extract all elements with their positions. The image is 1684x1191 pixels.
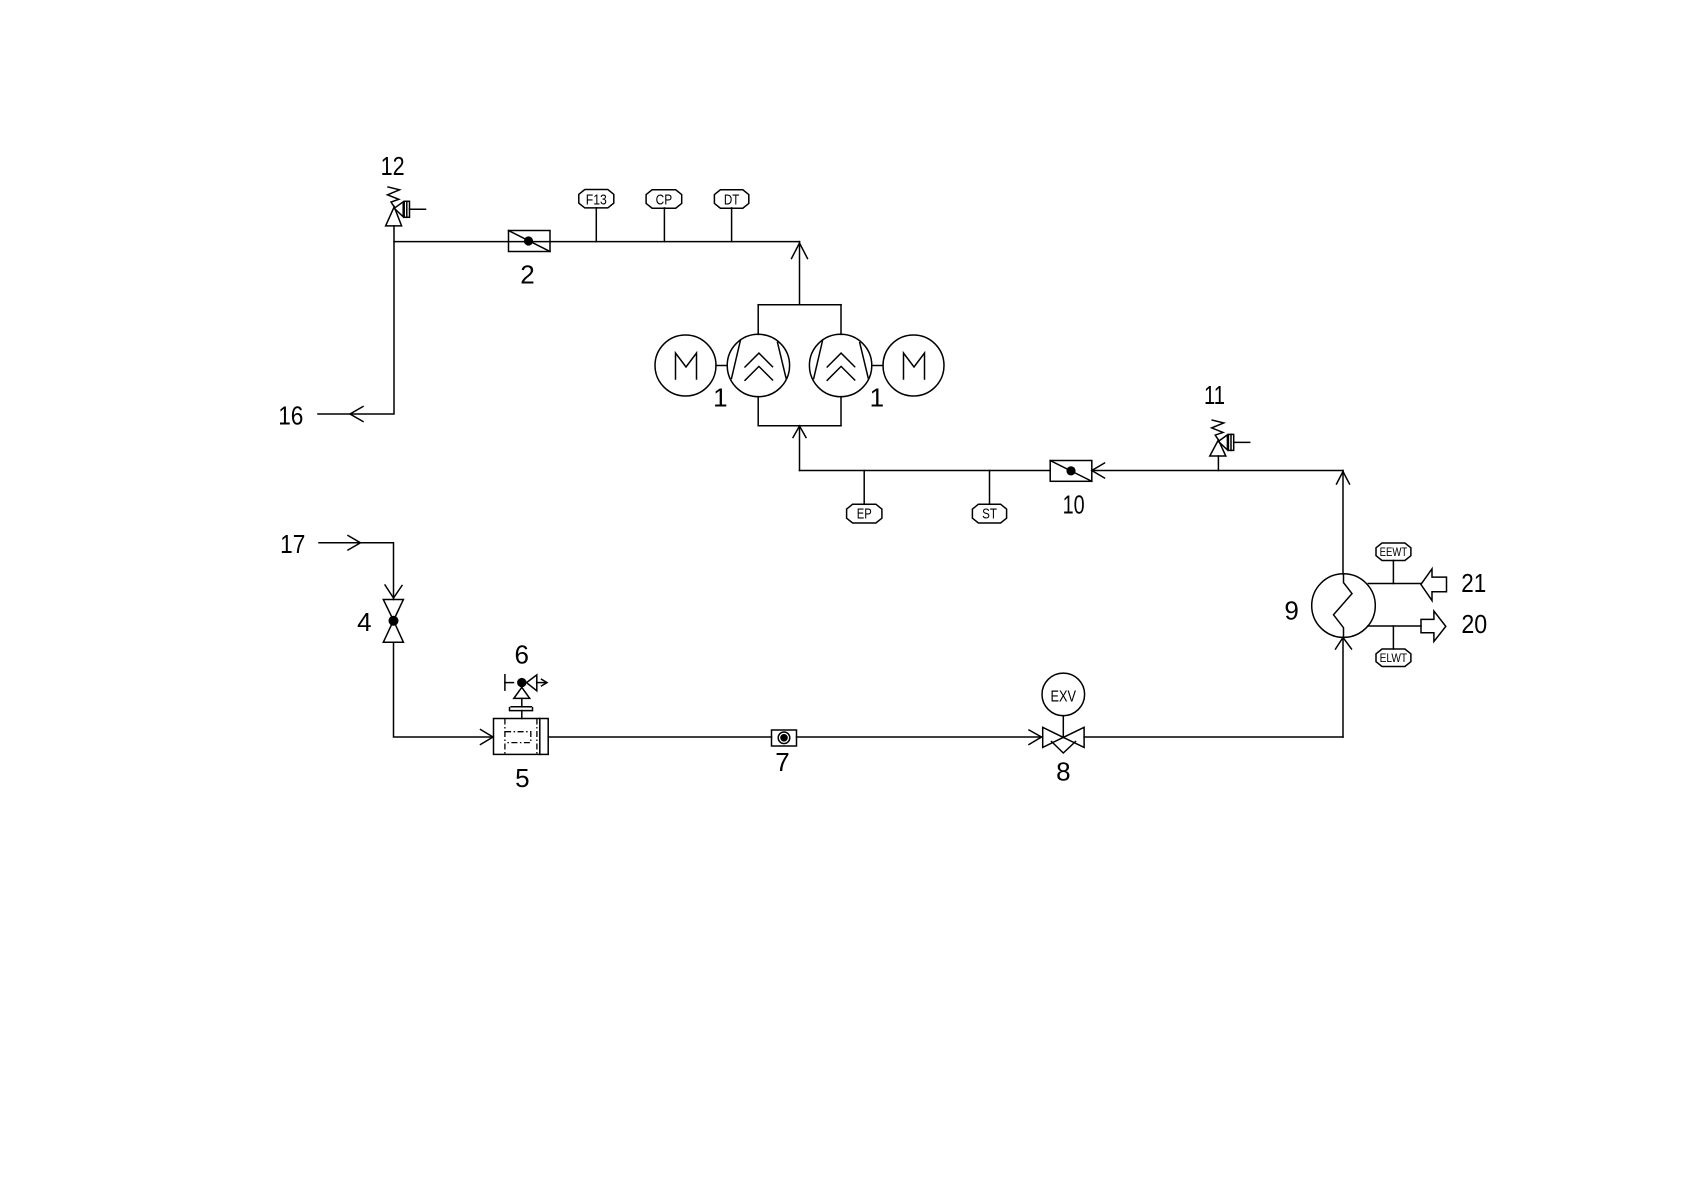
arrow on line to 16 (350, 407, 363, 422)
sensor DT (714, 190, 748, 209)
svg-text:7: 7 (775, 747, 789, 777)
wire: liquid line (sight glass to valve 8) (797, 736, 1043, 738)
svg-text:11: 11 (1204, 380, 1225, 410)
svg-text:9: 9 (1284, 596, 1298, 626)
relief valve 12 (386, 187, 426, 226)
wire: suction line right of filter (1092, 470, 1343, 472)
svg-text:1: 1 (713, 383, 727, 413)
svg-text:6: 6 (514, 640, 528, 670)
charging valve 6 (505, 675, 547, 719)
svg-text:ST: ST (982, 505, 997, 522)
sight glass 7 (772, 730, 797, 746)
svg-text:4: 4 (357, 607, 371, 637)
motor M (right) (872, 335, 944, 396)
sensor CP (646, 190, 682, 209)
svg-text:12: 12 (381, 151, 405, 181)
arrow into filter drier 5 (481, 730, 494, 745)
svg-text:EP: EP (857, 505, 872, 522)
wire: discharge riser from compressor (799, 242, 801, 305)
svg-text:EEWT: EEWT (1380, 547, 1408, 559)
svg-text:CP: CP (656, 191, 673, 208)
arrow up into compressor manifold (793, 426, 806, 438)
wire: liquid line from valve 4 (394, 642, 494, 737)
svg-text:EXV: EXV (1051, 689, 1077, 706)
svg-text:21: 21 (1461, 568, 1486, 598)
motor M (left) (655, 335, 727, 396)
svg-text:5: 5 (515, 763, 529, 793)
svg-text:17: 17 (280, 529, 305, 559)
filter 10 (1050, 461, 1092, 482)
svg-text:DT: DT (724, 191, 740, 208)
wire: liquid line (valve 8 to evaporator) (1084, 736, 1343, 738)
svg-text:20: 20 (1461, 609, 1487, 639)
arrow down into valve 4 (385, 585, 402, 598)
arrow into filter 10 (1092, 463, 1105, 478)
water outlet line (1368, 625, 1421, 627)
wire: discharge line (394, 241, 800, 243)
svg-text:16: 16 (278, 401, 303, 431)
sensor ST (972, 504, 1006, 523)
compressor 1 (right) (809, 334, 871, 396)
arrow into valve 8 (1029, 730, 1042, 745)
wire: suction riser to compressor (799, 426, 801, 471)
arrow 20 (water out) (1421, 611, 1446, 641)
svg-text:1: 1 (870, 383, 884, 413)
svg-text:2: 2 (520, 260, 534, 290)
evaporator 9 (plate heat exchanger) (1312, 574, 1376, 638)
sensor ST stem (989, 471, 991, 505)
wire: liquid line (filter drier to sight glass) (548, 736, 771, 738)
relief valve 11 (1210, 420, 1250, 470)
sensor F13 (579, 190, 614, 209)
arrow up at suction corner (1337, 472, 1350, 485)
wire: evaporator outlet riser (1342, 471, 1344, 575)
sensor EP (847, 504, 882, 523)
sensor CP stem (663, 208, 665, 242)
expansion valve 8 (EXV) (1042, 673, 1085, 753)
sensor EEWT stem (1392, 560, 1394, 583)
svg-text:8: 8 (1056, 757, 1070, 787)
arrow up into discharge line (792, 243, 808, 259)
wire: suction line (800, 470, 1051, 472)
svg-text:ELWT: ELWT (1380, 653, 1408, 665)
water inlet line (1368, 583, 1421, 585)
sensor EEWT (1376, 543, 1411, 561)
arrow up into evaporator (1336, 638, 1352, 650)
wire: vent line to 16 (318, 226, 394, 414)
arrow 21 (water in) (1421, 569, 1447, 601)
wire: inlet line from 17 (319, 543, 394, 600)
wire: evaporator inlet drop (1342, 638, 1344, 738)
sensor F13 stem (595, 208, 597, 242)
filter drier 5 (494, 719, 549, 755)
svg-text:F13: F13 (586, 191, 607, 208)
valve 4 (383, 600, 403, 643)
sensor ELWT stem (1392, 626, 1394, 649)
compressor manifold (758, 305, 841, 426)
check valve 2 (509, 231, 551, 252)
sensor EP stem (863, 471, 865, 505)
compressor 1 (left) (727, 334, 789, 396)
sensor DT stem (731, 208, 733, 242)
sensor ELWT (1376, 649, 1411, 667)
svg-text:10: 10 (1063, 490, 1085, 520)
arrow on line from 17 (348, 536, 361, 551)
